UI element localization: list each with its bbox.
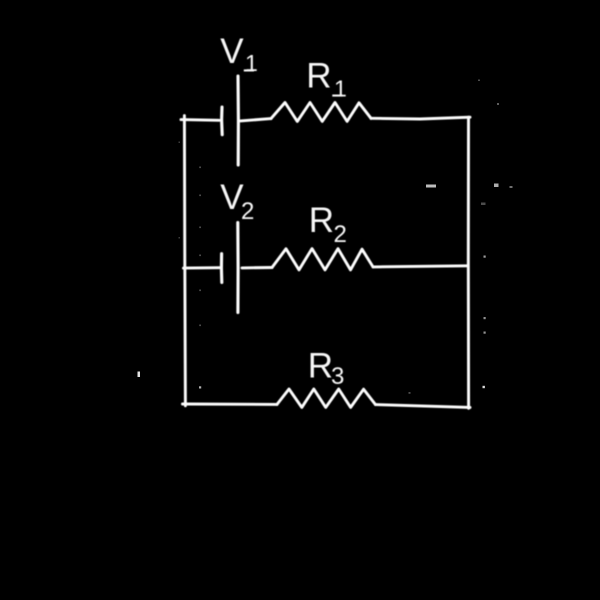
label R1 — [306, 57, 347, 102]
svg-text:2: 2 — [334, 221, 347, 248]
battery V2 — [221, 223, 238, 313]
label R3 — [308, 347, 345, 390]
wire: V2 positive plate to R2 — [242, 266, 272, 269]
resistor R3 — [277, 389, 376, 407]
resistor R2 — [272, 249, 373, 270]
wire: top-left segment, bus to V1 negative plate — [181, 118, 219, 122]
svg-text:R: R — [308, 347, 333, 386]
wire: V1 positive plate to R1 — [241, 119, 272, 121]
svg-text:R: R — [306, 57, 331, 96]
wire: right bus (vertical) — [467, 117, 470, 408]
svg-text:1: 1 — [245, 50, 258, 76]
svg-text:R: R — [309, 201, 334, 240]
wire: bottom-left segment, bus to R3 — [183, 403, 278, 406]
svg-text:V: V — [220, 32, 244, 71]
wire: R1 to right bus — [371, 117, 470, 119]
label V1 — [220, 32, 257, 76]
battery V1 — [222, 76, 239, 165]
label R2 — [309, 201, 347, 248]
wire: R3 to right bus — [376, 405, 471, 408]
wire: R2 to right bus — [373, 266, 468, 267]
svg-text:1: 1 — [334, 75, 347, 101]
label V2 — [220, 178, 254, 225]
svg-text:2: 2 — [241, 198, 254, 225]
wire: left bus (vertical) — [184, 116, 185, 406]
wire: mid-left segment, bus to V2 negative plate — [184, 266, 220, 269]
svg-text:3: 3 — [331, 363, 344, 390]
resistor R1 — [271, 103, 371, 122]
